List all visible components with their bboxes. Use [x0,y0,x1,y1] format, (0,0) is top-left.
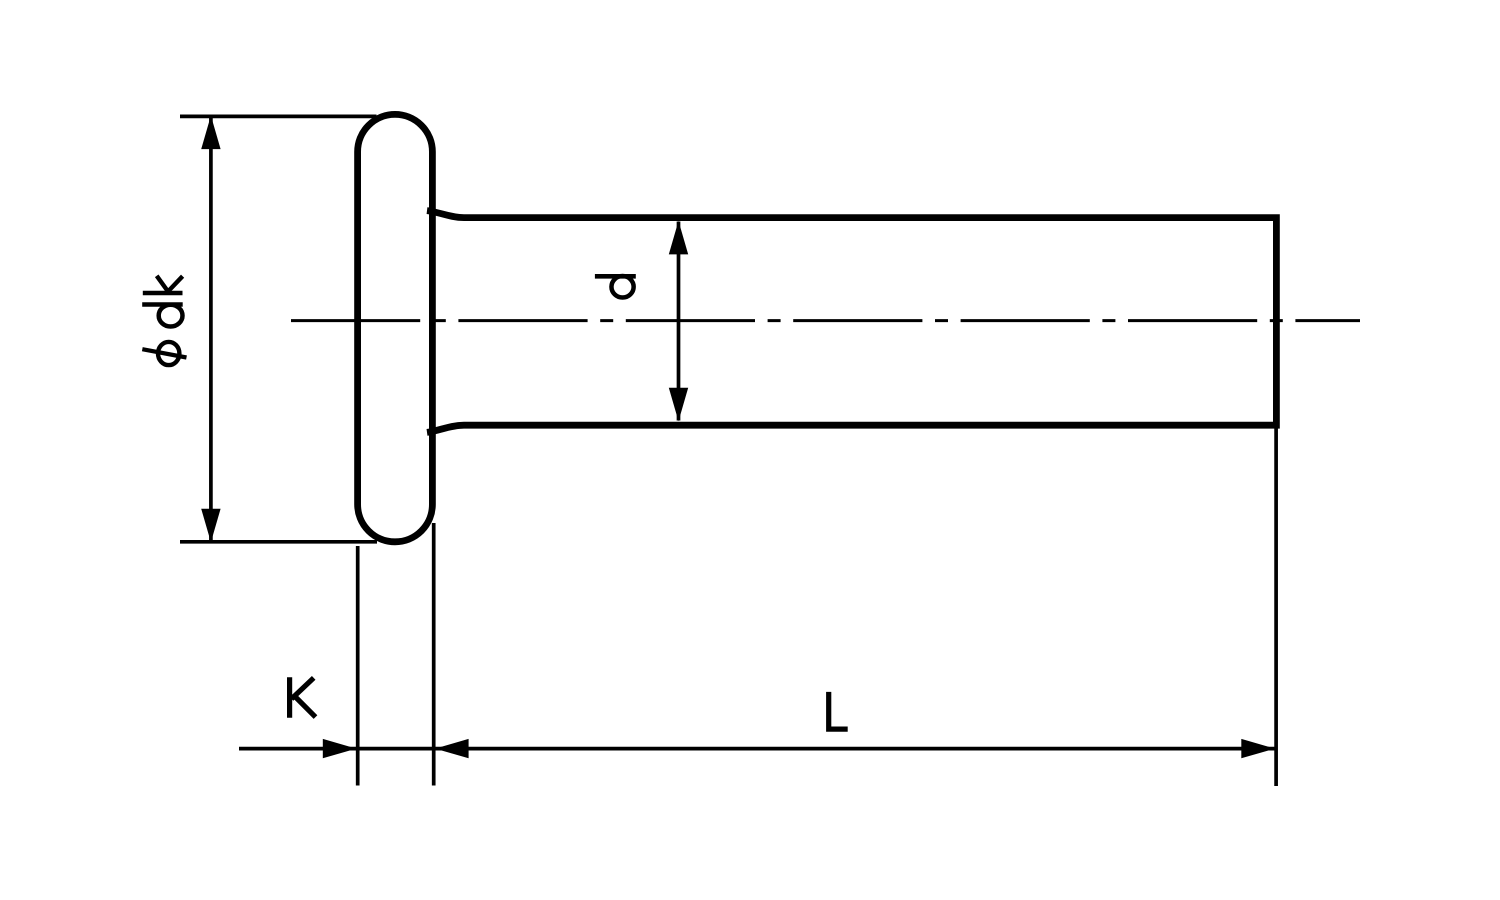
dimension line d vertical [677,222,681,421]
dimension line phi-dk vertical [209,116,213,542]
arrowhead up d [669,221,688,255]
rivet head (capsule outline) [358,114,433,541]
arrowhead down phi-dk [201,509,220,543]
arrowhead down d [669,388,688,422]
label L [829,692,848,729]
label d (rotated): d stem [595,274,636,279]
arrowhead right at K [323,739,357,758]
centerline (axis, dash-dot) [291,319,1360,322]
rivet shank outline [427,211,1276,433]
extension line top (head diameter) [180,115,377,119]
extension line shank end (L) [1274,428,1278,787]
label phi-dk: d stem [142,302,183,306]
label K [290,677,316,717]
label phi-dk: phi bar [142,349,186,357]
extension line head left (K) [356,546,360,786]
label phi-dk: k arms [157,276,183,292]
label phi-dk: d bowl [159,305,183,327]
label phi-dk (rotated): k stem [143,291,183,296]
arrowhead right at L end [1241,739,1275,758]
label d: d bowl [611,276,633,298]
label phi-dk: phi circle [158,342,179,365]
arrowhead left at L start [435,739,469,758]
dimension line bottom (K and L) [239,747,1275,751]
arrowhead up phi-dk [201,116,220,150]
extension line bottom (head diameter) [180,540,377,544]
extension line head right (K/L) [432,523,436,786]
